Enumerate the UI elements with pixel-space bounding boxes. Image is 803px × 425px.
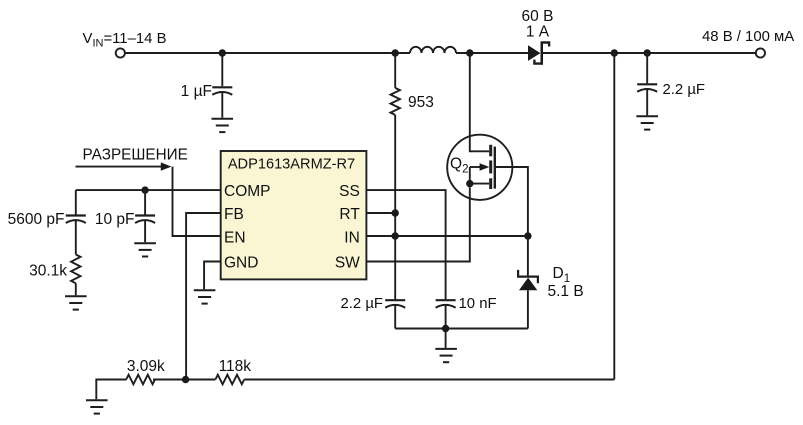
capacitor C6 10pF bbox=[135, 216, 155, 243]
node junction VIN/C1 bbox=[219, 49, 226, 56]
wire RT stub bbox=[366, 212, 395, 214]
wire top rail: terminal to inductor bbox=[125, 52, 410, 54]
wire SW to source bbox=[366, 187, 469, 261]
svg-text:30.1k: 30.1k bbox=[29, 263, 67, 280]
wire top rail: diode cathode to output terminal bbox=[543, 52, 756, 54]
svg-text:5600 pF: 5600 pF bbox=[8, 211, 65, 228]
svg-text:РАЗРЕШЕНИЕ: РАЗРЕШЕНИЕ bbox=[83, 147, 188, 164]
svg-text:GND: GND bbox=[224, 255, 258, 272]
node junction 953/L bbox=[392, 49, 399, 56]
svg-text:1 А: 1 А bbox=[526, 24, 550, 41]
capacitor C3 2.2uF output bbox=[637, 53, 657, 115]
transistor Q2 bbox=[447, 53, 528, 236]
node mid rail junction bbox=[442, 325, 449, 332]
wire R3 to ground bbox=[75, 283, 77, 295]
wire R1 to R2 bbox=[153, 379, 215, 381]
resistor R1 3.09k bbox=[126, 375, 155, 385]
wire top rail: inductor to diode anode bbox=[456, 52, 528, 54]
wire D1 top bbox=[527, 236, 529, 276]
resistor R3 30.1k bbox=[71, 255, 80, 284]
svg-text:EN: EN bbox=[224, 229, 246, 246]
node FB divider junction bbox=[182, 376, 189, 383]
node COMP junction bbox=[141, 186, 148, 193]
ground C1 bbox=[212, 119, 234, 132]
wire FB bbox=[186, 213, 221, 380]
IC U1 box bbox=[221, 151, 367, 279]
wire EN bbox=[173, 167, 221, 236]
svg-text:10 pF: 10 pF bbox=[95, 211, 135, 228]
svg-text:2.2 µF: 2.2 µF bbox=[663, 82, 706, 98]
diode D2 schottky bbox=[528, 41, 549, 65]
node gate/D1 junction bbox=[524, 232, 531, 239]
wire GND pin bbox=[204, 262, 221, 290]
wire C1 branch bbox=[221, 53, 223, 86]
node RT junction bbox=[392, 209, 399, 216]
output terminal bbox=[756, 48, 765, 57]
svg-text:COMP: COMP bbox=[224, 183, 271, 200]
wire feedback right vertical bbox=[613, 53, 615, 380]
capacitor C1 1uF bbox=[212, 87, 232, 118]
svg-text:48 В / 100 мА: 48 В / 100 мА bbox=[702, 29, 794, 45]
wire SS to C5 bbox=[366, 190, 445, 299]
node junction output cap bbox=[644, 49, 651, 56]
wire bottom rail left bbox=[96, 380, 126, 400]
ground mid rail bbox=[435, 329, 457, 363]
wire bottom mid rail bbox=[395, 328, 528, 330]
svg-text:5.1 В: 5.1 В bbox=[548, 283, 584, 300]
svg-text:SW: SW bbox=[335, 255, 360, 272]
wire 953 top bbox=[394, 53, 396, 88]
svg-text:3.09k: 3.09k bbox=[127, 358, 165, 375]
wire R2 to feedback vertical bbox=[244, 379, 614, 381]
resistor 953 bbox=[391, 88, 400, 115]
input terminal VIN bbox=[116, 48, 125, 57]
svg-text:IN: IN bbox=[344, 229, 360, 246]
wire 953 to RT/IN/C4 bbox=[394, 115, 396, 299]
svg-text:RT: RT bbox=[339, 206, 360, 223]
svg-text:60 В: 60 В bbox=[522, 8, 554, 25]
enable arrow bbox=[76, 162, 172, 170]
capacitor C5 10nF bbox=[436, 300, 456, 328]
svg-text:ADP1613ARMZ-R7: ADP1613ARMZ-R7 bbox=[228, 156, 355, 172]
node IN junction bbox=[392, 232, 399, 239]
svg-text:SS: SS bbox=[339, 183, 360, 200]
capacitor C2 5600pF bbox=[66, 216, 86, 255]
zener diode D1 bbox=[517, 270, 539, 290]
ground bottom rail bbox=[86, 400, 108, 413]
capacitor C4 2.2uF bbox=[385, 300, 405, 328]
wire C2 branch bbox=[75, 190, 77, 214]
svg-text:10 nF: 10 nF bbox=[459, 296, 497, 312]
ground C3 bbox=[636, 116, 658, 129]
ground R3 bbox=[65, 296, 87, 309]
wire C6 branch bbox=[144, 190, 146, 214]
wire D1 bottom bbox=[527, 290, 529, 328]
node junction L/drain bbox=[466, 49, 473, 56]
svg-text:2.2 µF: 2.2 µF bbox=[340, 296, 383, 312]
ground C6 bbox=[134, 243, 156, 256]
svg-text:FB: FB bbox=[224, 206, 244, 223]
wire IN to D1/gate bbox=[366, 235, 528, 237]
svg-text:953: 953 bbox=[408, 94, 434, 111]
inductor L1 bbox=[410, 47, 456, 53]
svg-text:1 µF: 1 µF bbox=[181, 83, 212, 100]
resistor R2 118k bbox=[215, 375, 244, 385]
wire COMP bbox=[76, 189, 221, 191]
svg-text:118k: 118k bbox=[219, 358, 252, 375]
node junction feedback bbox=[611, 49, 618, 56]
ground GND pin bbox=[194, 290, 216, 303]
